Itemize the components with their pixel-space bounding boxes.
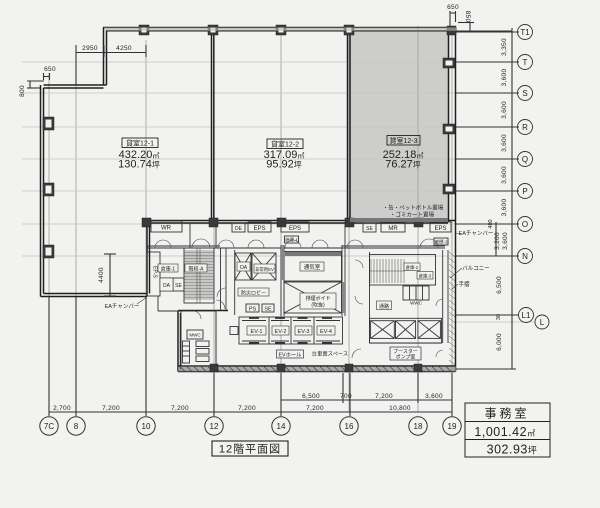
- svg-text:(吹抜): (吹抜): [311, 302, 325, 309]
- svg-text:8: 8: [74, 422, 79, 431]
- svg-text:通路: 通路: [379, 303, 389, 310]
- svg-text:倉庫-3: 倉庫-3: [419, 273, 432, 280]
- svg-text:EV-4: EV-4: [320, 329, 332, 335]
- svg-text:階段-A: 階段-A: [188, 266, 204, 273]
- svg-text:3,600: 3,600: [501, 166, 508, 184]
- svg-text:WWC: WWC: [410, 301, 422, 306]
- svg-text:10,800: 10,800: [389, 405, 411, 412]
- svg-text:3,600: 3,600: [502, 232, 509, 250]
- svg-text:倉庫-1: 倉庫-1: [161, 266, 176, 273]
- svg-text:2950: 2950: [82, 45, 98, 52]
- svg-text:800: 800: [19, 85, 26, 97]
- svg-text:16: 16: [345, 422, 354, 431]
- svg-text:N: N: [522, 252, 528, 261]
- svg-text:6,000: 6,000: [496, 333, 503, 351]
- svg-text:3,600: 3,600: [501, 69, 508, 87]
- svg-text:850: 850: [464, 11, 471, 23]
- svg-text:3,600: 3,600: [501, 134, 508, 152]
- svg-text:OA: OA: [240, 265, 248, 271]
- svg-text:通気室: 通気室: [304, 263, 321, 271]
- svg-text:12: 12: [210, 422, 219, 431]
- svg-text:7,200: 7,200: [238, 405, 256, 412]
- svg-text:O: O: [522, 220, 528, 229]
- svg-text:EV-3: EV-3: [298, 329, 310, 335]
- svg-text:遮煙-2: 遮煙-2: [434, 239, 447, 246]
- svg-text:Q: Q: [522, 155, 528, 164]
- svg-text:・缶・ペットボトル置場: ・缶・ペットボトル置場: [383, 204, 444, 212]
- svg-text:貸室12-3: 貸室12-3: [389, 136, 417, 145]
- svg-text:650: 650: [447, 4, 459, 11]
- svg-text:1,001.42㎡: 1,001.42㎡: [474, 425, 535, 439]
- svg-text:3,600: 3,600: [501, 101, 508, 119]
- svg-text:SE: SE: [366, 226, 373, 232]
- svg-text:P: P: [522, 187, 527, 196]
- svg-text:19: 19: [448, 422, 457, 431]
- svg-text:貸室12-1: 貸室12-1: [126, 139, 154, 148]
- svg-text:L1: L1: [522, 311, 531, 320]
- svg-text:MWC: MWC: [189, 333, 201, 338]
- svg-text:SE: SE: [175, 283, 182, 289]
- svg-text:7,200: 7,200: [375, 393, 393, 400]
- svg-text:バルコニー: バルコニー: [462, 265, 489, 272]
- svg-text:3,350: 3,350: [501, 38, 508, 56]
- svg-text:650: 650: [44, 66, 56, 73]
- svg-text:12階平面図: 12階平面図: [219, 442, 281, 456]
- svg-text:貸室12-2: 貸室12-2: [271, 140, 299, 149]
- svg-text:7,200: 7,200: [102, 405, 120, 412]
- svg-text:防災ロビー: 防災ロビー: [241, 290, 266, 297]
- svg-text:非常用EV: 非常用EV: [255, 266, 274, 273]
- svg-text:排煙ボイド: 排煙ボイド: [305, 295, 330, 302]
- svg-text:2,700: 2,700: [53, 405, 71, 412]
- svg-text:130.74坪: 130.74坪: [118, 159, 160, 171]
- svg-text:7,200: 7,200: [306, 405, 324, 412]
- svg-text:S: S: [522, 89, 527, 98]
- svg-text:14: 14: [277, 422, 286, 431]
- svg-text:T1: T1: [520, 28, 530, 37]
- svg-text:WR: WR: [161, 226, 172, 232]
- svg-text:MR: MR: [388, 226, 398, 232]
- svg-text:18: 18: [414, 422, 423, 431]
- svg-text:302.93坪: 302.93坪: [487, 443, 538, 457]
- svg-text:倉庫-2: 倉庫-2: [406, 264, 419, 271]
- svg-text:3,600: 3,600: [425, 393, 443, 400]
- svg-text:EAチャンバー: EAチャンバー: [459, 230, 494, 237]
- svg-text:EV-2: EV-2: [275, 329, 287, 335]
- svg-text:事務室: 事務室: [484, 406, 529, 421]
- svg-text:4250: 4250: [116, 45, 132, 52]
- svg-text:7,200: 7,200: [171, 405, 189, 412]
- svg-text:95.92坪: 95.92坪: [266, 159, 302, 171]
- svg-text:T: T: [523, 58, 528, 67]
- svg-text:3,600: 3,600: [501, 199, 508, 217]
- svg-text:・ゴミカート置場: ・ゴミカート置場: [390, 211, 435, 219]
- svg-text:700: 700: [340, 393, 352, 400]
- svg-text:4400: 4400: [98, 267, 105, 283]
- svg-text:DE: DE: [235, 226, 243, 232]
- svg-text:EV-1: EV-1: [251, 329, 263, 335]
- svg-text:L: L: [540, 318, 545, 327]
- svg-text:台車置スペース: 台車置スペース: [312, 350, 348, 358]
- svg-text:EPS: EPS: [253, 226, 265, 232]
- svg-text:SE: SE: [264, 307, 272, 313]
- svg-text:R: R: [522, 123, 528, 132]
- svg-text:EVホール: EVホール: [279, 352, 303, 359]
- svg-text:ポンプ室: ポンプ室: [396, 354, 416, 361]
- svg-text:30: 30: [496, 314, 502, 320]
- svg-text:76.27坪: 76.27坪: [385, 159, 421, 171]
- svg-text:7C: 7C: [44, 422, 54, 431]
- svg-text:PS: PS: [249, 307, 257, 313]
- svg-text:6,500: 6,500: [302, 393, 320, 400]
- svg-text:遮煙-1: 遮煙-1: [285, 237, 298, 244]
- svg-text:EPS: EPS: [434, 226, 446, 232]
- svg-text:6,500: 6,500: [496, 276, 503, 294]
- svg-text:DA: DA: [163, 283, 171, 289]
- svg-text:400: 400: [488, 219, 494, 228]
- svg-text:手摺: 手摺: [458, 280, 470, 288]
- svg-text:3,200: 3,200: [494, 232, 501, 250]
- svg-text:EAチャンバー: EAチャンバー: [105, 303, 140, 310]
- svg-text:10: 10: [142, 422, 151, 431]
- svg-text:EPS: EPS: [289, 226, 301, 232]
- svg-text:EP-S: EP-S: [152, 266, 158, 278]
